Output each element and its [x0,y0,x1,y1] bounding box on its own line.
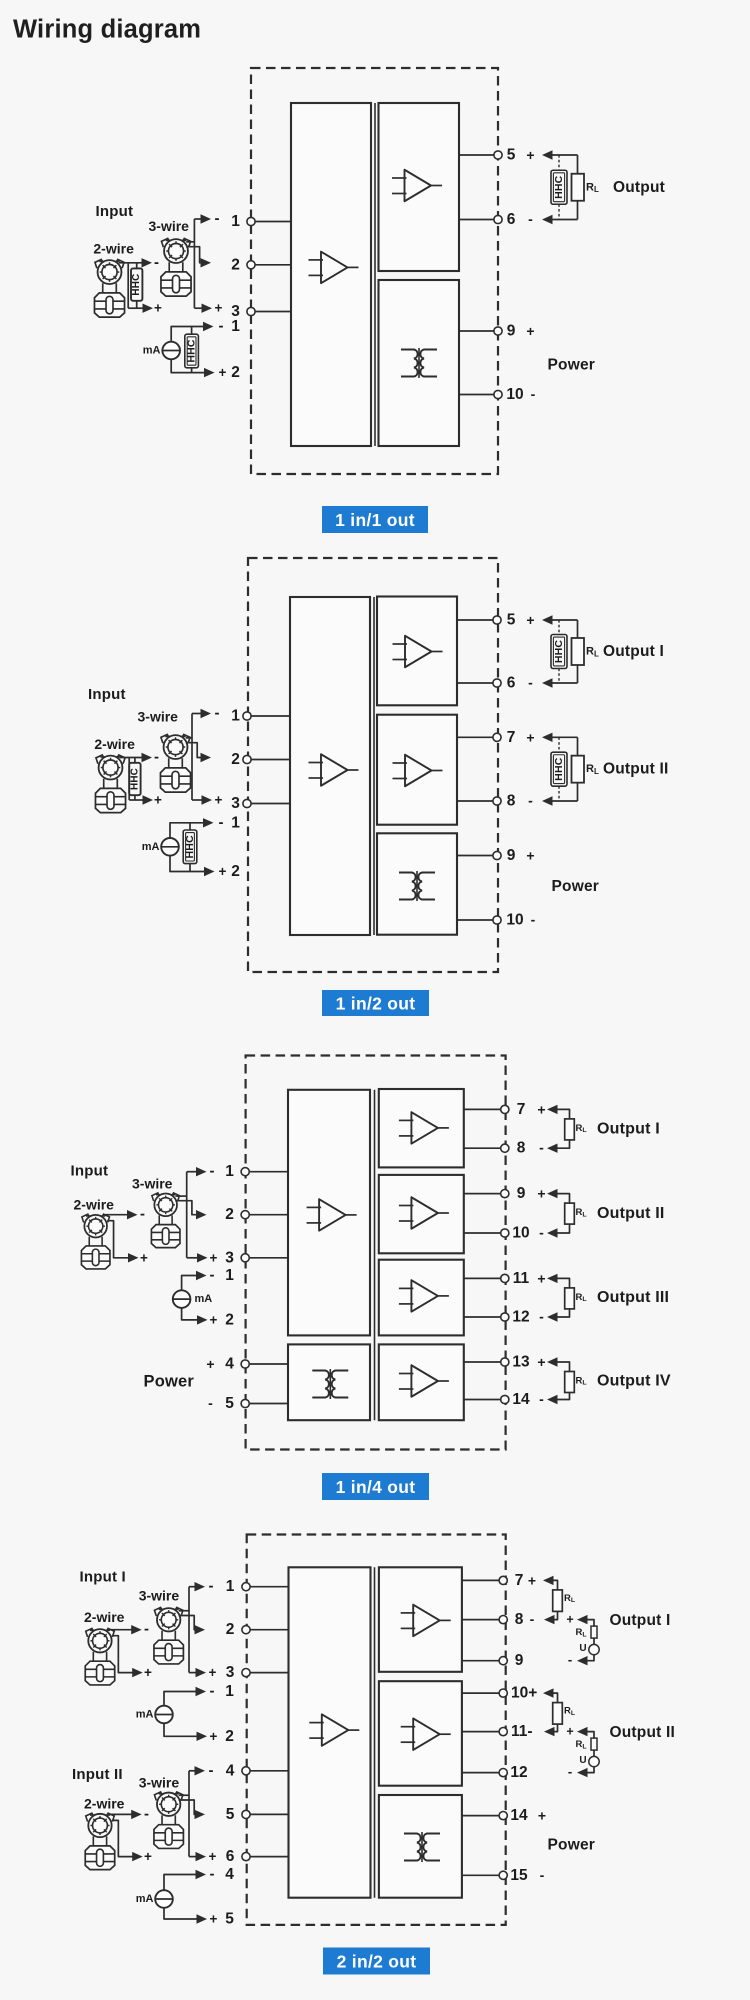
D2 wire 3-wire bus vertical [191,714,193,801]
D3 terminal 9 [501,1190,509,1198]
D4 input II 2-wire transmitter [85,1813,114,1870]
D4 transformer T1 [404,1832,440,1862]
D3 arrow mA minus [196,1271,207,1280]
D3 terminal 14 [501,1395,509,1403]
svg-text:12: 12 [512,1309,529,1326]
D3 isolator dashed enclosure [246,1056,506,1450]
D4 input II wire 3-wire ear lead [179,1794,189,1796]
svg-text:3: 3 [231,795,240,812]
svg-text:+: + [144,1849,152,1864]
svg-text:5: 5 [507,147,516,164]
D2 wire terminal 10 from block [457,919,497,921]
svg-text:+: + [219,864,227,879]
D4 input I arrow mA plus [197,1732,208,1741]
svg-text:RL: RL [564,1706,575,1717]
svg-text:+: + [144,1665,152,1680]
D1 transformer T1 [401,348,437,378]
D4 input I arrow 3-wire pin2 [195,1625,206,1634]
D4 terminal 12 [499,1769,507,1777]
D4 op-amp U1 input stage [309,1714,359,1746]
D4 op-amp U3 output II [401,1718,451,1750]
svg-text:-: - [154,254,159,271]
D2 wire load branch output I [577,620,579,683]
D2 terminal 1 [243,712,251,720]
D3 input amplifier block [288,1090,370,1336]
svg-text:2: 2 [225,1728,234,1745]
svg-text:7: 7 [507,729,516,746]
svg-text:4: 4 [225,1866,234,1883]
svg-text:Input I: Input I [80,1569,126,1586]
D4 wire voltage loop II [585,1732,594,1773]
svg-text:+: + [537,1270,545,1286]
svg-text:-: - [210,1267,215,1284]
D4 wire terminal 10 from block [462,1692,503,1694]
svg-text:Output IV: Output IV [597,1372,671,1389]
D1 wire 3-wire to pin3 [194,307,201,309]
D3 arrow output plus I [547,1105,558,1114]
svg-text:3-wire: 3-wire [138,709,179,725]
D2 HHC meter box output II [551,752,567,786]
D1 wire 2-wire loop vertical [127,263,129,308]
svg-text:9: 9 [515,1652,524,1669]
svg-text:7: 7 [515,1572,524,1589]
svg-text:Input: Input [88,686,126,703]
svg-text:6: 6 [226,1848,235,1865]
D3 wire 3-wire to pin3 [187,1257,197,1259]
D1 wire terminal 9 from block [459,330,498,332]
svg-text:2: 2 [231,751,240,768]
D3 wire terminal 12 from block [464,1316,505,1318]
svg-text:+: + [206,1356,214,1372]
D3 wire terminal 1 to input block [245,1171,288,1173]
D1 wire HHC box taps [136,263,138,308]
D4 output amplifier block II [379,1681,462,1786]
D3 resistor RL II [565,1203,575,1224]
svg-text:1: 1 [225,1163,234,1180]
D4 input I wire mA plus lead [164,1723,197,1736]
D4 wire terminal 15 from block [462,1874,503,1876]
svg-text:-: - [539,1140,544,1156]
D4 input I mA current source [155,1706,173,1724]
D4 wire current loop II [552,1693,558,1732]
D4 input II arrow 3-wire pin3 [196,1852,207,1861]
D3 op-amp U3 output II [399,1197,449,1229]
D1 op-amp U1 input stage [309,252,359,284]
svg-text:Input II: Input II [72,1766,123,1783]
svg-text:Output III: Output III [597,1289,669,1306]
D4 wire terminal 1 to input block [246,1586,289,1588]
svg-text:-: - [210,1163,215,1180]
D1 input amplifier block [291,103,371,446]
D2 arrow mA plus [204,867,215,876]
svg-text:-: - [530,1611,535,1627]
svg-text:HHC: HHC [553,640,565,664]
D2 resistor RL output II [572,756,585,783]
D2 wire mA minus lead [170,823,204,838]
svg-text:15: 15 [510,1867,528,1884]
D3 terminal 7 [501,1105,509,1113]
svg-text:Power: Power [548,1836,596,1853]
D4 input I 3-wire transmitter [154,1607,183,1664]
D1 terminal 5 [494,151,502,159]
D1 arrow 2-wire plus [143,304,154,313]
D1 arrow mA minus [203,322,214,331]
D2 output amplifier block I [377,597,457,706]
D1 HHC meter box output [551,170,567,204]
D4 op-amp U2 output I [401,1605,451,1637]
D3 wire terminal 8 from block [464,1147,505,1149]
D3 wire terminal 14 from block [464,1399,505,1401]
D4 wire terminal 12 from block [462,1772,503,1774]
D2 wire 2-wire plus lead [129,799,143,801]
D1 wire mA HHC taps [191,327,193,373]
D1 op-amp U2 output stage [392,170,442,202]
D1 arrow output plus output [542,150,553,159]
D2 wire 3-wire to pin2 [186,743,202,758]
D2 wire output top rail output I [551,619,578,621]
D2 wire terminal 5 from block [457,619,497,621]
D1 wire terminal 10 from block [459,394,498,396]
D2 wire HHC dashed taps output I [558,620,560,683]
svg-text:-: - [219,814,224,831]
svg-text:Output II: Output II [603,761,669,778]
svg-text:3: 3 [225,1249,234,1266]
D4 terminal 7 [499,1576,507,1584]
D1 wire terminal 3 to input block [251,311,291,313]
svg-text:-: - [528,675,533,691]
D4 terminal 11 [499,1728,507,1736]
D2 wire terminal 8 from block [457,800,497,802]
D1 arrow output minus output [542,215,553,224]
D3 arrow 3-wire pin2 [196,1210,207,1219]
D3 op-amp U2 output I [399,1112,449,1144]
D1 wire terminal 1 to input block [251,221,291,223]
svg-text:Output I: Output I [610,1612,671,1629]
D2 terminal 7 [493,733,501,741]
D4 input II wire 3-wire to pin3 [189,1856,196,1858]
D3 isolation barrier [374,1090,376,1420]
D1 arrow 3-wire pin1 [201,214,212,223]
svg-text:-: - [539,1225,544,1241]
D4 input I arrow mA minus [196,1687,207,1696]
D2 op-amp U1 input stage [309,754,359,786]
D4 wire terminal 4 to input block [246,1770,289,1772]
D3 wire terminal 9 from block [464,1193,505,1195]
D3 terminal 11 [501,1274,509,1282]
svg-text:13: 13 [512,1354,530,1371]
svg-text:1 in/1 out: 1 in/1 out [335,510,415,530]
D4 wire terminal 5 to input block [246,1813,289,1815]
D1 wire HHC dashed taps output [558,155,560,220]
svg-text:+: + [210,1250,218,1265]
svg-text:+: + [526,848,534,864]
D1 mA current source [162,342,180,360]
svg-text:2: 2 [231,863,240,880]
svg-text:+: + [215,793,223,808]
svg-text:2: 2 [231,256,240,273]
D1 wire 2-wire minus lead [119,262,143,264]
svg-text:2-wire: 2-wire [93,241,134,257]
svg-text:1: 1 [231,318,240,335]
D2 arrow 2-wire plus [143,795,154,804]
D2 arrow output plus output II [542,733,553,742]
D4 terminal 5 [242,1810,250,1818]
svg-text:3-wire: 3-wire [149,218,190,234]
D3 arrow output minus I [547,1144,558,1153]
D4 input II wire 2-wire plus lead [112,1820,133,1856]
svg-text:2: 2 [225,1206,234,1223]
D2 wire terminal 7 from block [457,736,497,738]
D4 input I wire 3-wire bus vertical [188,1587,190,1673]
D1 wire mA minus lead [171,327,204,342]
svg-text:Power: Power [548,357,596,374]
svg-text:2: 2 [231,364,240,381]
D2 wire 2-wire minus lead [120,757,143,759]
D3 wire terminal 4 to transformer block [245,1363,288,1365]
svg-text:-: - [531,912,536,928]
svg-text:+: + [526,612,534,628]
D4 wire terminal 2 to input block [246,1629,289,1631]
D2 wire terminal 3 to input block [247,803,290,805]
D4 wire terminal 7 from block [462,1579,503,1581]
D3 terminal 12 [501,1313,509,1321]
svg-text:+: + [526,729,534,745]
D1 terminal 6 [494,215,502,223]
D3 arrow output plus IV [547,1357,558,1366]
D3 arrow 2-wire plus [128,1253,139,1262]
D4 arrow voltage minus II [577,1768,588,1777]
D2 input amplifier block [290,597,370,935]
svg-text:-: - [568,1764,572,1779]
svg-text:HHC: HHC [553,757,565,781]
svg-text:RL: RL [576,1376,587,1387]
svg-text:2 in/2 out: 2 in/2 out [337,1952,417,1972]
D4 input II wire 3-wire to pin1 [189,1770,196,1772]
D4 resistor RL current II [553,1703,563,1725]
D1 isolator dashed enclosure [251,68,498,474]
D4 wire terminal 3 to input block [246,1672,289,1674]
svg-text:+: + [537,1186,545,1202]
D2 HHC meter box output I [551,635,567,669]
D2 wire 3-wire to pin1 [192,713,202,715]
D2 wire terminal 9 from block [457,855,497,857]
D4 terminal 3 [242,1669,250,1677]
D1 terminal 10 [494,390,502,398]
D2 wire output top rail output II [551,736,578,738]
D3 wire 2-wire minus lead [104,1214,128,1216]
svg-text:+: + [215,301,223,316]
svg-text:-: - [219,318,224,335]
svg-text:RL: RL [576,1292,587,1303]
svg-text:RL: RL [576,1739,587,1750]
D4 terminal 15 [499,1871,507,1879]
D4 input II arrow mA minus [196,1870,207,1879]
svg-text:mA: mA [195,1293,213,1305]
D4 input I arrow 3-wire pin1 [195,1582,206,1591]
D4 input II wire mA plus lead [164,1908,197,1919]
D4 input I arrow 3-wire pin3 [196,1668,207,1677]
svg-text:1: 1 [231,708,240,725]
svg-text:+: + [537,1354,545,1370]
svg-text:2-wire: 2-wire [84,1796,125,1812]
svg-text:-: - [215,210,220,227]
svg-text:3: 3 [226,1664,235,1681]
svg-text:mA: mA [136,1709,154,1721]
D2 arrow output plus output I [542,615,553,624]
svg-text:+: + [210,1912,218,1927]
D4 voltmeter U I [589,1644,599,1654]
D1 2-wire transmitter [94,259,124,317]
D4 input I 2-wire transmitter [85,1628,114,1685]
D3 caption badge [322,1473,429,1500]
svg-text:Output II: Output II [610,1724,676,1741]
D1 terminal 9 [494,327,502,335]
D3 terminal 1 [241,1168,249,1176]
svg-text:mA: mA [142,841,160,853]
D4 input I wire 3-wire to pin1 [189,1586,196,1588]
D2 terminal 3 [243,799,251,807]
svg-text:-: - [144,1805,149,1822]
D4 arrow voltage plus I [577,1615,588,1624]
D3 terminal 3 [241,1254,249,1262]
D4 arrow output plus I [543,1576,554,1585]
svg-text:+: + [526,323,534,339]
D3 output amplifier block II [379,1175,464,1253]
D2 terminal 2 [243,755,251,763]
svg-text:4: 4 [226,1762,235,1779]
D2 power transformer block [377,833,457,934]
D4 arrow output minus I [544,1615,555,1624]
svg-text:5: 5 [507,612,516,629]
D3 wire 2-wire plus lead [107,1221,129,1258]
D4 wire terminal 11 from block [462,1731,503,1733]
D4 isolator dashed enclosure [247,1535,506,1925]
svg-text:RL: RL [576,1123,587,1134]
D1 HHC box on mA loop [185,334,199,368]
svg-text:HHC: HHC [184,835,196,859]
D4 resistor RL voltage II [591,1738,597,1750]
D2 wire load branch output II [577,737,579,801]
svg-text:+: + [538,1808,546,1824]
svg-text:-: - [540,1867,545,1883]
svg-text:-: - [539,1309,544,1325]
D3 output amplifier block III [379,1260,464,1336]
svg-text:-: - [568,1652,572,1667]
D1 arrow 3-wire pin2 [201,258,212,267]
D4 arrow voltage plus II [577,1727,588,1736]
D2 wire HHC dashed taps output II [558,737,560,801]
D2 wire HHC box taps [134,758,136,801]
svg-text:Power: Power [144,1372,195,1390]
svg-text:3-wire: 3-wire [139,1774,180,1790]
D4 input II wire 2-wire minus lead [109,1813,132,1815]
D2 wire 2-wire loop vertical [128,758,130,801]
D4 arrow output plus II [543,1688,554,1697]
svg-text:+: + [528,1572,536,1588]
svg-text:8: 8 [515,1611,524,1628]
svg-text:Output: Output [613,179,665,196]
D2 terminal 9 [493,851,501,859]
D4 input II arrow mA plus [197,1914,208,1923]
svg-text:RL: RL [576,1207,587,1218]
D3 wire terminal 7 from block [464,1108,505,1110]
svg-text:6: 6 [507,211,516,228]
D4 wire terminal 9 from block [462,1660,503,1662]
D1 wire load branch output [577,155,579,220]
D3 wire terminal 3 to input block [245,1257,288,1259]
D4 isolation barrier [374,1567,376,1897]
D3 wire terminal 13 from block [464,1361,505,1363]
D4 arrow output minus II [544,1727,555,1736]
D3 wire 3-wire to pin1 [187,1171,197,1173]
svg-text:-: - [209,1578,214,1595]
D3 terminal 13 [501,1358,509,1366]
svg-text:10: 10 [512,1225,529,1242]
D3 wire mA plus lead [182,1308,197,1320]
svg-text:12: 12 [510,1764,527,1781]
D1 wire output bottom rail output [551,219,578,221]
svg-text:RL: RL [564,1593,575,1604]
D3 resistor RL I [565,1119,575,1140]
D4 input I arrow 2-wire minus [131,1625,142,1634]
D4 terminal 2 [242,1626,250,1634]
svg-text:10: 10 [506,912,523,929]
D4 wire terminal 14 from block [462,1815,503,1817]
D4 input II arrow 3-wire pin1 [195,1766,206,1775]
D4 resistor RL current I [553,1590,563,1612]
svg-text:3-wire: 3-wire [132,1176,173,1192]
svg-text:14: 14 [512,1391,530,1408]
D3 resistor RL III [565,1288,575,1309]
D1 wire mA plus lead [171,359,204,372]
D3 wire 3-wire bus vertical [186,1172,188,1258]
D4 input II 3-wire transmitter [154,1792,183,1849]
D2 HHC box on mA loop [183,830,197,864]
svg-text:+: + [537,1101,545,1117]
D4 terminal 8 [499,1616,507,1624]
D3 wire terminal 10 from block [464,1232,505,1234]
D2 resistor RL output I [572,638,585,665]
D4 input II wire mA minus lead [164,1875,197,1891]
svg-text:-: - [210,1866,215,1883]
D4 voltmeter U II [589,1756,599,1766]
D1 arrow mA plus [204,368,215,377]
D1 HHC box on 2-wire loop [131,268,142,300]
D3 wire output load loop I [556,1109,570,1148]
D2 3-wire transmitter [160,734,190,792]
D3 arrow output minus III [547,1312,558,1321]
svg-text:-: - [528,211,533,227]
svg-text:Input: Input [96,203,134,220]
D4 resistor RL voltage I [591,1626,597,1638]
svg-text:+: + [154,793,162,808]
svg-text:+: + [140,1250,148,1265]
D2 arrow 3-wire pin2 [201,753,212,762]
D2 wire mA plus lead [170,856,204,872]
svg-text:1 in/2 out: 1 in/2 out [336,994,416,1014]
svg-text:-: - [539,1391,544,1407]
svg-text:1: 1 [231,213,240,230]
svg-text:HHC: HHC [131,274,142,296]
svg-text:9: 9 [507,323,516,340]
svg-text:+: + [210,1312,218,1327]
D3 terminal 10 [501,1229,509,1237]
D2 arrow output minus output I [542,678,553,687]
D1 wire output top rail output [551,154,578,156]
D2 wire 3-wire to pin3 [192,799,202,801]
D4 input II arrow 3-wire pin2 [195,1810,206,1819]
D4 input I wire 3-wire to pin3 [189,1672,196,1674]
